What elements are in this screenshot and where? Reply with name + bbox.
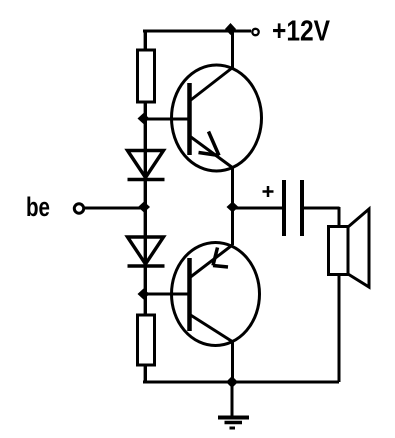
wire be input — [84, 207, 144, 210]
wire collector lead Q1 — [231, 31, 234, 68]
wire down to speaker — [338, 207, 341, 227]
wire output node to Q2 emitter — [231, 208, 234, 245]
wire R2 to bottom rail — [144, 365, 147, 382]
wire D2 to node B — [144, 236, 147, 315]
node be junction dot — [138, 202, 150, 213]
wire R1 to node A — [144, 102, 147, 236]
output node junction dot — [227, 202, 239, 213]
transistor Q2 — [172, 243, 260, 346]
terminal be input — [74, 204, 83, 213]
speaker LS1 — [329, 209, 370, 287]
wire speaker to bottom rail — [338, 274, 341, 382]
wire capacitor to speaker — [304, 207, 340, 210]
junction dot bottom rail — [226, 376, 238, 388]
wire bottom rail — [143, 381, 339, 384]
resistor R2 — [138, 315, 155, 365]
wire rail to R1 — [144, 31, 147, 50]
wire Q2 collector to bottom rail — [231, 342, 234, 382]
junction dot top rail / collector tap — [225, 23, 236, 35]
wire output to capacitor — [232, 207, 282, 210]
svg-text:be: be — [26, 192, 50, 222]
wire base lead Q2 — [144, 293, 190, 296]
node A junction dot — [138, 113, 150, 124]
capacitor C1 — [263, 180, 303, 236]
diode D1 — [128, 151, 165, 180]
wire top rail +12V — [143, 30, 251, 33]
wire base lead Q1 — [144, 118, 190, 121]
ground — [218, 382, 249, 428]
resistor R1 — [138, 50, 155, 102]
diode D2 — [128, 237, 165, 266]
terminal +12V — [252, 29, 258, 35]
transistor Q1 — [172, 65, 262, 171]
svg-text:+12V: +12V — [272, 16, 331, 48]
node B junction dot — [138, 289, 150, 300]
wire Q1 emitter to output node — [231, 168, 234, 208]
